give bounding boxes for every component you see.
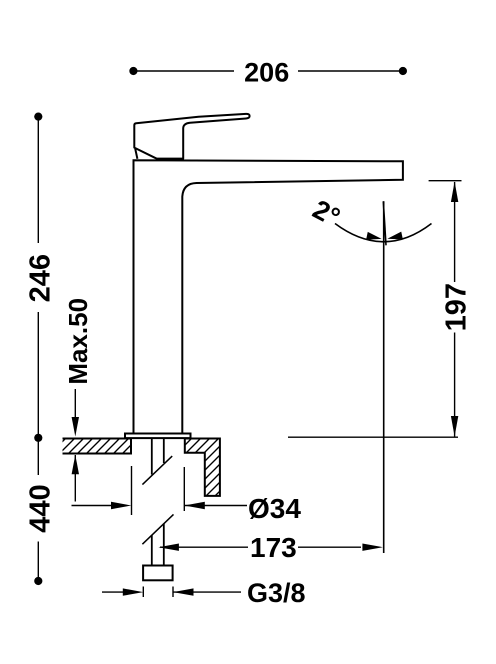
svg-text:197: 197: [441, 283, 473, 331]
svg-text:G3/8: G3/8: [247, 578, 306, 608]
svg-text:206: 206: [244, 58, 289, 88]
svg-text:Ø34: Ø34: [248, 493, 301, 524]
svg-text:440: 440: [25, 484, 57, 532]
svg-text:Max.50: Max.50: [63, 298, 93, 385]
svg-text:246: 246: [25, 254, 57, 302]
svg-text:173: 173: [250, 532, 297, 563]
